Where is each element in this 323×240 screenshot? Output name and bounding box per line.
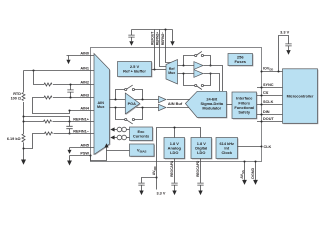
wire REFIN2- column (166, 30, 171, 63)
node CS (260, 94, 262, 96)
svg-text:AIN4: AIN4 (80, 107, 90, 111)
svg-text:AVDD: AVDD (152, 166, 157, 175)
svg-text:SYNC: SYNC (263, 83, 274, 87)
wire ref bypass bottom (184, 74, 211, 86)
buffer AIN buf bottom (159, 104, 167, 110)
capacitor AIN2-AIN3 (67, 85, 73, 98)
block 2.5V ref buffer (118, 62, 153, 78)
svg-text:AIN2: AIN2 (80, 81, 89, 85)
svg-text:Microcontroller: Microcontroller (287, 95, 314, 99)
node AIN4 junction (68, 109, 70, 111)
svg-text:REGCAPA: REGCAPA (170, 160, 174, 177)
node PGA bottom right (141, 106, 143, 108)
svg-text:Safety: Safety (238, 110, 251, 115)
ground at PSW (67, 156, 72, 166)
node AVSS (243, 160, 245, 162)
wire pin AIN1 (24, 70, 95, 72)
node SYNC (260, 86, 262, 88)
wire mux out top (110, 99, 159, 101)
switch PGA top (125, 85, 135, 91)
svg-text:DGND: DGND (251, 168, 255, 179)
buffer ref bottom (194, 70, 203, 78)
capacitor REFIN1 (66, 122, 72, 134)
svg-text:Modulator: Modulator (202, 106, 221, 111)
wire ref buf bottom to modulator (204, 74, 220, 92)
svg-text:REFOUT: REFOUT (150, 31, 154, 45)
wire AVSS (244, 162, 246, 180)
op-amp PGA (125, 93, 140, 115)
node cap top on AIN2 (69, 83, 71, 85)
svg-text:IOVDD: IOVDD (263, 66, 273, 71)
wire VBIAS to mux (107, 147, 130, 150)
buffer ref top (194, 62, 203, 70)
resistor 6.19k (22, 134, 25, 142)
svg-text:REFIN2−: REFIN2− (161, 32, 165, 45)
wire AVDD internal rail (157, 128, 201, 162)
capacitor REGCAPD (197, 183, 203, 185)
node ref bottom left (182, 72, 184, 74)
wire ref mux out top (178, 65, 194, 67)
capacitor ref decoupling (128, 30, 134, 38)
wire buf to modulator bottom (167, 107, 189, 109)
wire ref block to ref mux (152, 69, 167, 71)
resistor on AIN3 (44, 96, 52, 99)
node PGA top left (114, 98, 116, 100)
svg-text:3.3 V: 3.3 V (157, 191, 166, 195)
arrow VBIAS into mux (104, 143, 108, 147)
svg-text:LDO: LDO (170, 150, 178, 155)
wire pin AIN0 (67, 55, 95, 57)
svg-text:Clock: Clock (221, 150, 232, 155)
resistor RTD (22, 93, 25, 101)
block 1.8V analog LDO (164, 138, 185, 160)
svg-text:SCLK: SCLK (263, 100, 274, 104)
svg-text:RTD: RTD (13, 92, 21, 96)
svg-text:Mux: Mux (168, 71, 175, 75)
svg-text:REFIN1+: REFIN1+ (73, 118, 90, 122)
resistor on REFIN1+ (44, 120, 52, 123)
resistor on AIN2 (44, 83, 52, 86)
svg-text:AIN1: AIN1 (80, 67, 89, 71)
arrow ref rail into chip (170, 30, 174, 46)
wire ref buf top to modulator (204, 66, 223, 92)
current source bottom (110, 135, 129, 140)
svg-text:AIN3: AIN3 (80, 94, 89, 98)
wire CS (257, 95, 283, 97)
wire pin AIN2 branch (34, 71, 95, 85)
node AVDD decoupling tee (155, 176, 157, 178)
wire buf to modulator top (167, 99, 190, 101)
wire pin AIN3 branch (33, 98, 95, 114)
svg-text:6.19 kΩ: 6.19 kΩ (7, 137, 21, 141)
node AIN1-AIN2 tee (32, 69, 34, 71)
svg-text:Currents: Currents (133, 133, 149, 138)
ground at left bus (21, 159, 26, 165)
ground at AIN0 (66, 56, 70, 65)
ground at DGND (253, 180, 258, 185)
node ref top right (209, 64, 211, 66)
node REFIN1- cap (68, 132, 70, 134)
wire DIN (257, 114, 283, 116)
wire REFOUT column (154, 30, 156, 70)
wire DGND (255, 162, 257, 180)
node DIN (260, 113, 262, 115)
modulator 24-bit sigma-delta (185, 91, 227, 118)
svg-text:DOUT: DOUT (263, 117, 274, 121)
wire PGA bypass top (116, 90, 143, 100)
wire mux out bottom (110, 107, 159, 109)
current source top (110, 127, 129, 132)
ground at REGCAPA cap (172, 185, 176, 195)
wire ref mux out bottom (178, 73, 194, 75)
capacitor AVDD (138, 183, 144, 185)
wire SCLK (257, 104, 283, 106)
svg-text:3.3 V: 3.3 V (280, 30, 289, 35)
capacitor REGCAPA (171, 183, 177, 185)
buffer AIN buf top (159, 96, 167, 102)
block 256 fuses (228, 54, 253, 67)
wire ref top rail (132, 29, 173, 31)
wire pin REFIN1+ (24, 121, 95, 123)
ground at AVDD cap (139, 185, 143, 195)
svg-text:100 Ω: 100 Ω (11, 97, 21, 101)
ground at AIN5 (68, 148, 72, 154)
svg-text:REFIN1−: REFIN1− (73, 130, 90, 134)
ground at 3.3V cap (286, 46, 290, 55)
block interface filters functional safety (232, 92, 257, 119)
ground at AVSS (242, 180, 247, 185)
node 3.3V at IOVDD (277, 70, 279, 72)
wire AVDD cap branch (142, 178, 157, 183)
node REFIN1+ cap (68, 120, 70, 122)
svg-text:Fuses: Fuses (234, 59, 246, 64)
wire pin AIN4 (70, 110, 95, 112)
block 614kHz int clock (216, 138, 238, 160)
block 1.8V digital LDO (191, 138, 212, 160)
svg-text:Mux: Mux (97, 105, 105, 109)
svg-text:REGCAPD: REGCAPD (196, 160, 200, 177)
node cap bottom on AIN3 (69, 96, 71, 98)
svg-text:AIN0: AIN0 (80, 52, 89, 56)
AIN mux (94, 54, 110, 156)
svg-text:PSW: PSW (80, 152, 89, 156)
svg-text:PGA: PGA (128, 102, 136, 106)
svg-text:AVSS: AVSS (240, 170, 245, 179)
node bus REFIN1+ tee (22, 120, 24, 122)
wire pin AIN5 (70, 147, 95, 149)
node REFIN2- top (164, 28, 166, 30)
wire PGA bypass bottom (116, 108, 143, 120)
wire REFIN1+ sense link (24, 117, 70, 122)
node REFOUT tap (153, 68, 155, 70)
switch PGA bottom (125, 118, 135, 124)
wire pin REFIN1- (24, 134, 95, 149)
node DGND (254, 160, 256, 162)
ADC chip outline U1 (91, 48, 262, 162)
wire modulator to interface (227, 104, 233, 106)
node IOVDD (260, 70, 262, 72)
wire PSW internal (91, 151, 107, 161)
wire ref bypass top (184, 56, 211, 66)
node bus sense tee (22, 115, 24, 117)
wire clock to CLK pin (238, 146, 262, 148)
svg-text:LDO: LDO (197, 150, 205, 155)
svg-text:DIN: DIN (263, 110, 270, 114)
wire left RTD bus (23, 71, 25, 160)
node bus REFIN1- tee (22, 147, 24, 149)
wire DOUT (257, 121, 283, 123)
wire AVDD supply (156, 162, 158, 190)
node PSW at chip edge (89, 154, 91, 156)
resistor on REFIN1- (45, 132, 53, 135)
svg-text:Ref + Buffer: Ref + Buffer (123, 69, 146, 74)
node DOUT (260, 120, 262, 122)
svg-text:REFIN2+: REFIN2+ (156, 32, 160, 45)
wire 3.3V supply (279, 36, 289, 72)
switch ref bottom (195, 84, 204, 89)
node PGA top right (141, 98, 143, 100)
svg-text:CS: CS (263, 91, 269, 95)
capacitor 3.3V decoupling (285, 44, 291, 46)
block exc currents (130, 127, 154, 141)
node CLK (260, 145, 262, 147)
ground at REGCAPD cap (198, 185, 202, 195)
microcontroller block (283, 69, 319, 124)
svg-text:VBIAS: VBIAS (137, 148, 147, 154)
node AVDD rail to analog LDO (173, 126, 175, 128)
wire REGCAPA (174, 159, 176, 183)
node PGA bottom left (114, 106, 116, 108)
node ref top left (182, 64, 184, 66)
svg-text:AIN Buf: AIN Buf (168, 101, 183, 106)
svg-text:AIN5: AIN5 (80, 144, 89, 148)
block VBIAS (130, 144, 155, 157)
node ref bottom right (209, 72, 211, 74)
ground at ref cap (129, 37, 133, 45)
ref mux (166, 60, 178, 85)
switch ref top (195, 51, 204, 56)
wire IOVDD (262, 71, 283, 73)
wire REFIN2+ column (160, 30, 167, 67)
svg-text:CLK: CLK (264, 145, 272, 149)
wire REGCAPD (200, 159, 202, 183)
wire pin PSW (70, 155, 91, 157)
wire SYNC (257, 87, 283, 89)
node SCLK (260, 103, 262, 105)
